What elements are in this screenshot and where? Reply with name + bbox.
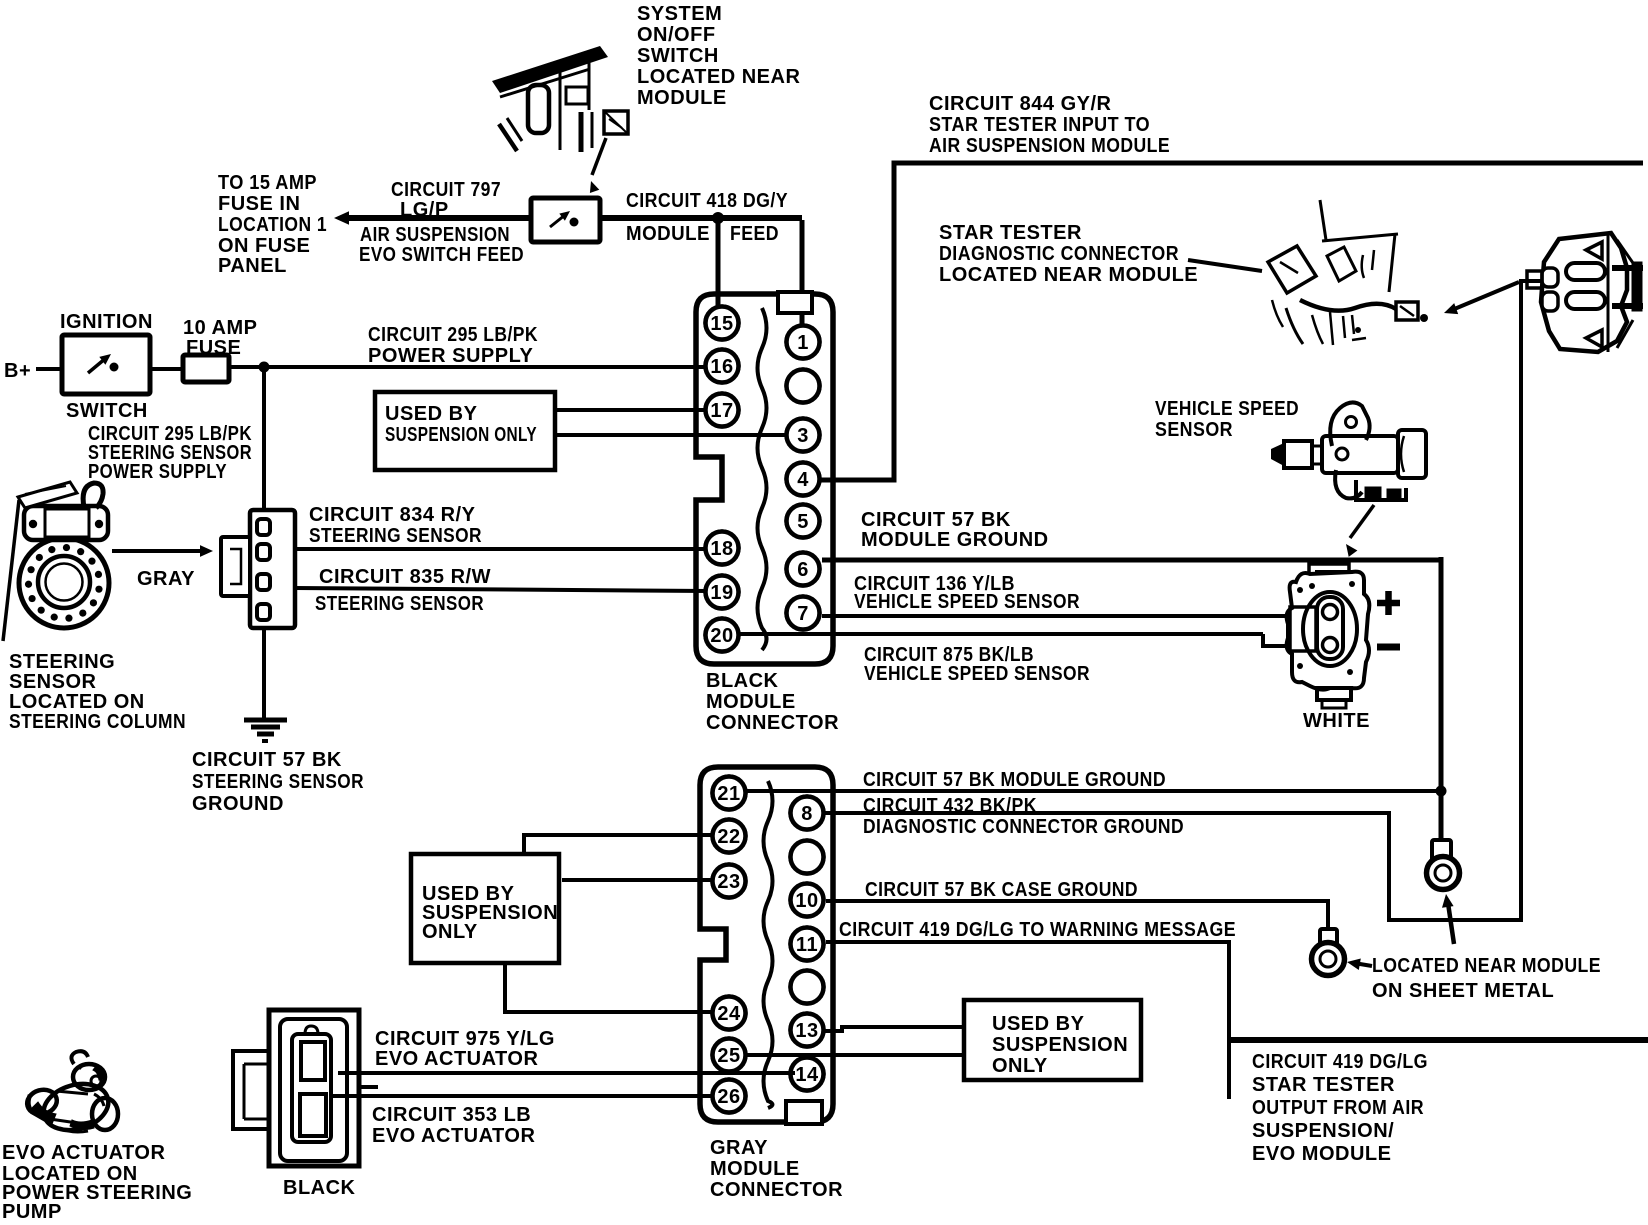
svg-text:STAR TESTER INPUT TO: STAR TESTER INPUT TO (929, 114, 1150, 136)
svg-text:CIRCUIT 295 LB/PK: CIRCUIT 295 LB/PK (368, 324, 538, 346)
svg-text:5: 5 (797, 511, 809, 533)
svg-text:VEHICLE SPEED SENSOR: VEHICLE SPEED SENSOR (864, 663, 1090, 685)
svg-text:7: 7 (797, 603, 809, 625)
svg-text:14: 14 (795, 1064, 819, 1086)
svg-text:CIRCUIT 835 R/W: CIRCUIT 835 R/W (319, 566, 491, 588)
svg-text:ON SHEET METAL: ON SHEET METAL (1372, 980, 1554, 1002)
svg-text:SUSPENSION/: SUSPENSION/ (1252, 1120, 1394, 1142)
svg-text:BLACK: BLACK (706, 670, 779, 692)
svg-text:LOCATION 1: LOCATION 1 (218, 214, 327, 236)
svg-text:SWITCH: SWITCH (637, 45, 719, 67)
svg-text:STAR TESTER: STAR TESTER (1252, 1074, 1395, 1096)
svg-text:STAR TESTER: STAR TESTER (939, 222, 1082, 244)
svg-text:16: 16 (710, 356, 733, 378)
svg-text:SWITCH: SWITCH (66, 400, 148, 422)
svg-text:USED BY: USED BY (992, 1013, 1085, 1035)
svg-text:GROUND: GROUND (192, 793, 284, 815)
svg-text:CIRCUIT 975 Y/LG: CIRCUIT 975 Y/LG (375, 1028, 555, 1050)
svg-text:DIAGNOSTIC CONNECTOR: DIAGNOSTIC CONNECTOR (939, 243, 1179, 265)
svg-text:MODULE: MODULE (706, 691, 796, 713)
svg-text:CIRCUIT 57 BK CASE GROUND: CIRCUIT 57 BK CASE GROUND (865, 879, 1138, 901)
svg-text:AIR SUSPENSION MODULE: AIR SUSPENSION MODULE (929, 135, 1170, 157)
svg-text:SENSOR: SENSOR (9, 671, 97, 693)
svg-text:FEED: FEED (730, 223, 779, 245)
svg-text:MODULE: MODULE (710, 1158, 800, 1180)
svg-text:EVO ACTUATOR: EVO ACTUATOR (375, 1048, 538, 1070)
svg-text:13: 13 (795, 1020, 818, 1042)
svg-text:LOCATED NEAR: LOCATED NEAR (637, 66, 800, 88)
svg-text:SUSPENSION: SUSPENSION (992, 1034, 1128, 1056)
svg-text:IGNITION: IGNITION (60, 311, 153, 333)
svg-text:LOCATED ON: LOCATED ON (9, 691, 145, 713)
svg-text:MODULE GROUND: MODULE GROUND (861, 529, 1049, 551)
svg-text:WHITE: WHITE (1303, 710, 1370, 732)
svg-text:CIRCUIT 797: CIRCUIT 797 (391, 179, 501, 201)
svg-text:POWER SUPPLY: POWER SUPPLY (368, 345, 533, 367)
svg-text:CIRCUIT 57 BK: CIRCUIT 57 BK (192, 749, 342, 771)
svg-text:4: 4 (797, 469, 809, 491)
svg-text:25: 25 (717, 1045, 740, 1067)
svg-text:USED BY: USED BY (385, 403, 478, 425)
svg-text:CIRCUIT 419 DG/LG TO WARNING M: CIRCUIT 419 DG/LG TO WARNING MESSAGE (839, 919, 1236, 941)
svg-text:SENSOR: SENSOR (1155, 419, 1233, 441)
svg-text:ON/OFF: ON/OFF (637, 24, 716, 46)
svg-text:CIRCUIT 57 BK: CIRCUIT 57 BK (861, 509, 1011, 531)
svg-text:MODULE: MODULE (637, 87, 727, 109)
svg-text:AIR SUSPENSION: AIR SUSPENSION (360, 224, 510, 246)
svg-text:17: 17 (710, 400, 733, 422)
svg-text:15: 15 (710, 313, 733, 335)
svg-text:ONLY: ONLY (992, 1055, 1048, 1077)
svg-text:LOCATED NEAR MODULE: LOCATED NEAR MODULE (1372, 955, 1601, 977)
svg-text:23: 23 (717, 871, 740, 893)
svg-text:GRAY: GRAY (710, 1137, 768, 1159)
svg-text:STEERING SENSOR: STEERING SENSOR (309, 525, 482, 547)
svg-text:SYSTEM: SYSTEM (637, 3, 722, 25)
svg-text:18: 18 (710, 538, 733, 560)
svg-text:EVO MODULE: EVO MODULE (1252, 1143, 1391, 1165)
svg-text:20: 20 (710, 625, 733, 647)
svg-text:BLACK: BLACK (283, 1177, 356, 1199)
svg-text:CIRCUIT 834 R/Y: CIRCUIT 834 R/Y (309, 504, 476, 526)
svg-text:ON FUSE: ON FUSE (218, 235, 310, 257)
svg-text:POWER SUPPLY: POWER SUPPLY (88, 461, 227, 483)
svg-text:1: 1 (797, 332, 809, 354)
svg-text:10: 10 (795, 890, 818, 912)
svg-text:STEERING SENSOR: STEERING SENSOR (192, 771, 364, 793)
svg-text:STEERING SENSOR: STEERING SENSOR (315, 593, 484, 615)
svg-text:PANEL: PANEL (218, 255, 287, 277)
svg-text:6: 6 (797, 559, 809, 581)
svg-text:CIRCUIT 432 BK/PK: CIRCUIT 432 BK/PK (863, 795, 1037, 817)
svg-text:STEERING: STEERING (9, 651, 115, 673)
svg-text:OUTPUT FROM AIR: OUTPUT FROM AIR (1252, 1097, 1424, 1119)
svg-text:ONLY: ONLY (422, 921, 478, 943)
svg-text:PUMP: PUMP (2, 1201, 62, 1220)
svg-text:26: 26 (717, 1086, 740, 1108)
svg-text:VEHICLE SPEED SENSOR: VEHICLE SPEED SENSOR (854, 591, 1080, 613)
svg-text:CIRCUIT 418 DG/Y: CIRCUIT 418 DG/Y (626, 190, 788, 212)
svg-text:EVO ACTUATOR: EVO ACTUATOR (2, 1142, 165, 1164)
svg-text:10 AMP: 10 AMP (183, 317, 258, 339)
svg-text:22: 22 (717, 826, 740, 848)
svg-text:CONNECTOR: CONNECTOR (706, 712, 839, 734)
svg-text:VEHICLE SPEED: VEHICLE SPEED (1155, 398, 1299, 420)
svg-text:LG/P: LG/P (400, 199, 449, 221)
svg-text:8: 8 (801, 803, 813, 825)
svg-text:EVO ACTUATOR: EVO ACTUATOR (372, 1125, 535, 1147)
svg-text:3: 3 (797, 425, 809, 447)
svg-text:B+: B+ (4, 360, 31, 382)
svg-text:19: 19 (710, 582, 733, 604)
svg-text:FUSE IN: FUSE IN (218, 193, 300, 215)
svg-text:21: 21 (717, 783, 740, 805)
svg-text:CONNECTOR: CONNECTOR (710, 1179, 843, 1201)
svg-text:TO 15 AMP: TO 15 AMP (218, 172, 317, 194)
svg-text:CIRCUIT 844 GY/R: CIRCUIT 844 GY/R (929, 93, 1112, 115)
svg-text:24: 24 (717, 1003, 741, 1025)
svg-text:CIRCUIT 353 LB: CIRCUIT 353 LB (372, 1104, 531, 1126)
svg-text:LOCATED NEAR MODULE: LOCATED NEAR MODULE (939, 264, 1198, 286)
svg-text:CIRCUIT 419 DG/LG: CIRCUIT 419 DG/LG (1252, 1051, 1428, 1073)
svg-text:SUSPENSION ONLY: SUSPENSION ONLY (385, 424, 537, 446)
svg-text:EVO SWITCH FEED: EVO SWITCH FEED (359, 244, 524, 266)
svg-text:DIAGNOSTIC CONNECTOR GROUND: DIAGNOSTIC CONNECTOR GROUND (863, 816, 1184, 838)
svg-text:STEERING COLUMN: STEERING COLUMN (9, 711, 186, 733)
svg-text:GRAY: GRAY (137, 568, 195, 590)
svg-text:11: 11 (796, 934, 818, 956)
svg-text:CIRCUIT 57 BK MODULE GROUND: CIRCUIT 57 BK MODULE GROUND (863, 769, 1166, 791)
svg-text:MODULE: MODULE (626, 223, 710, 245)
svg-text:FUSE: FUSE (186, 337, 241, 359)
